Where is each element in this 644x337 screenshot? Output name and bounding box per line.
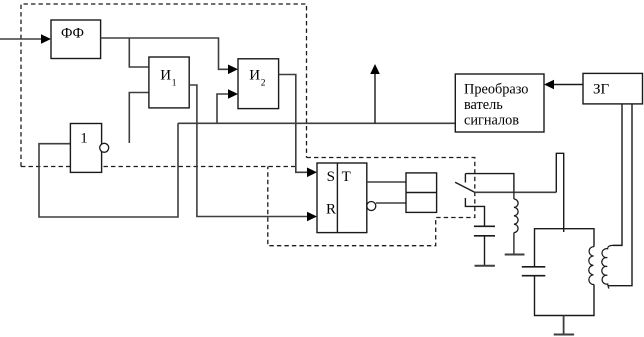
transformer secondary winding [602,245,622,288]
svg-text:И: И [160,67,171,83]
wire link jog to tank circuit top [556,153,563,232]
arrowhead into FF [41,34,51,44]
arrowhead into AND2 lower input [228,89,238,99]
svg-text:Преобразо: Преобразо [464,81,528,97]
arrowhead into R input [307,212,317,222]
svg-text:И: И [249,67,260,83]
gate AND2 (I2) [238,59,279,109]
ground under tank [554,334,574,336]
arrowhead into signal converter [544,80,554,90]
wire tank bottom to ground [563,316,565,335]
ground under L1 [505,254,525,256]
inner dashed box (trigger/switch unit boundary) [268,158,475,246]
svg-text:R: R [326,201,336,217]
capacitor C2 plates [522,267,546,276]
gate AND1 (I1) [149,57,189,108]
svg-text:сигналов: сигналов [464,113,519,129]
tank circuit loop with capacitor C2 in left edge [535,229,595,316]
inversion bubble on NOT output [100,143,109,152]
transformer primary winding (on tank right edge) [589,247,594,285]
wire AND2 output to S input of trigger [279,75,308,173]
svg-text:ЗГ: ЗГ [593,81,610,97]
block FF (pulse shaper) [51,20,101,59]
ground under C1 [475,265,495,267]
two-cell box (output register) [406,173,437,213]
wire input to FF [0,38,44,40]
wire ZG output 2 down to transformer secondary bottom [608,104,633,286]
wire C1 to ground [484,236,486,265]
svg-text:ватель: ватель [464,97,503,113]
arrowhead into S input [307,168,317,178]
block ZG (master oscillator) [583,73,643,104]
wire AND1 output to R input of trigger [189,85,308,217]
wire stub to AND1 lower input [129,93,149,144]
inductor L1 (choke under switch rail) [514,192,518,254]
wire trigger direct output to counter cell [367,181,406,183]
outer dashed box (pulse-shaping unit boundary) [21,4,307,167]
wire trigger inverse output to counter cell [376,202,406,204]
wire output tap with up arrow [374,73,376,123]
wire from main bus up to AND2 lower input [217,94,232,123]
svg-text:T: T [342,169,351,185]
wire ZG to signal converter [551,84,583,86]
wire ZG output 1 down to transformer secondary top [613,104,622,246]
svg-text:S: S [327,169,335,185]
wire switch common to link [475,191,557,193]
wire switch lower contact to capacitor C1 [465,198,484,226]
wire FF output to AND2 upper input [101,38,232,69]
arrowhead into AND2 upper input [228,65,238,75]
switch S (SPDT key) [455,174,514,193]
trigger ST (RS flip-flop) [317,163,367,233]
gate NOT "1" (inverter) [70,124,101,173]
wire branch FF output to AND1 upper input [129,38,149,67]
inversion bubble on trigger inverse output [367,202,376,211]
svg-text:ФФ: ФФ [61,26,84,42]
block signal converter (Preobrazovatel signalov) [455,74,544,132]
svg-text:1: 1 [172,79,177,89]
capacitor C1 [474,226,495,236]
main horizontal bus wire to signal converter [178,122,455,124]
svg-text:1: 1 [80,130,88,146]
arrowhead up [370,64,380,74]
svg-text:2: 2 [261,79,266,89]
wire feedback loop from bus to inverter input [39,123,178,217]
